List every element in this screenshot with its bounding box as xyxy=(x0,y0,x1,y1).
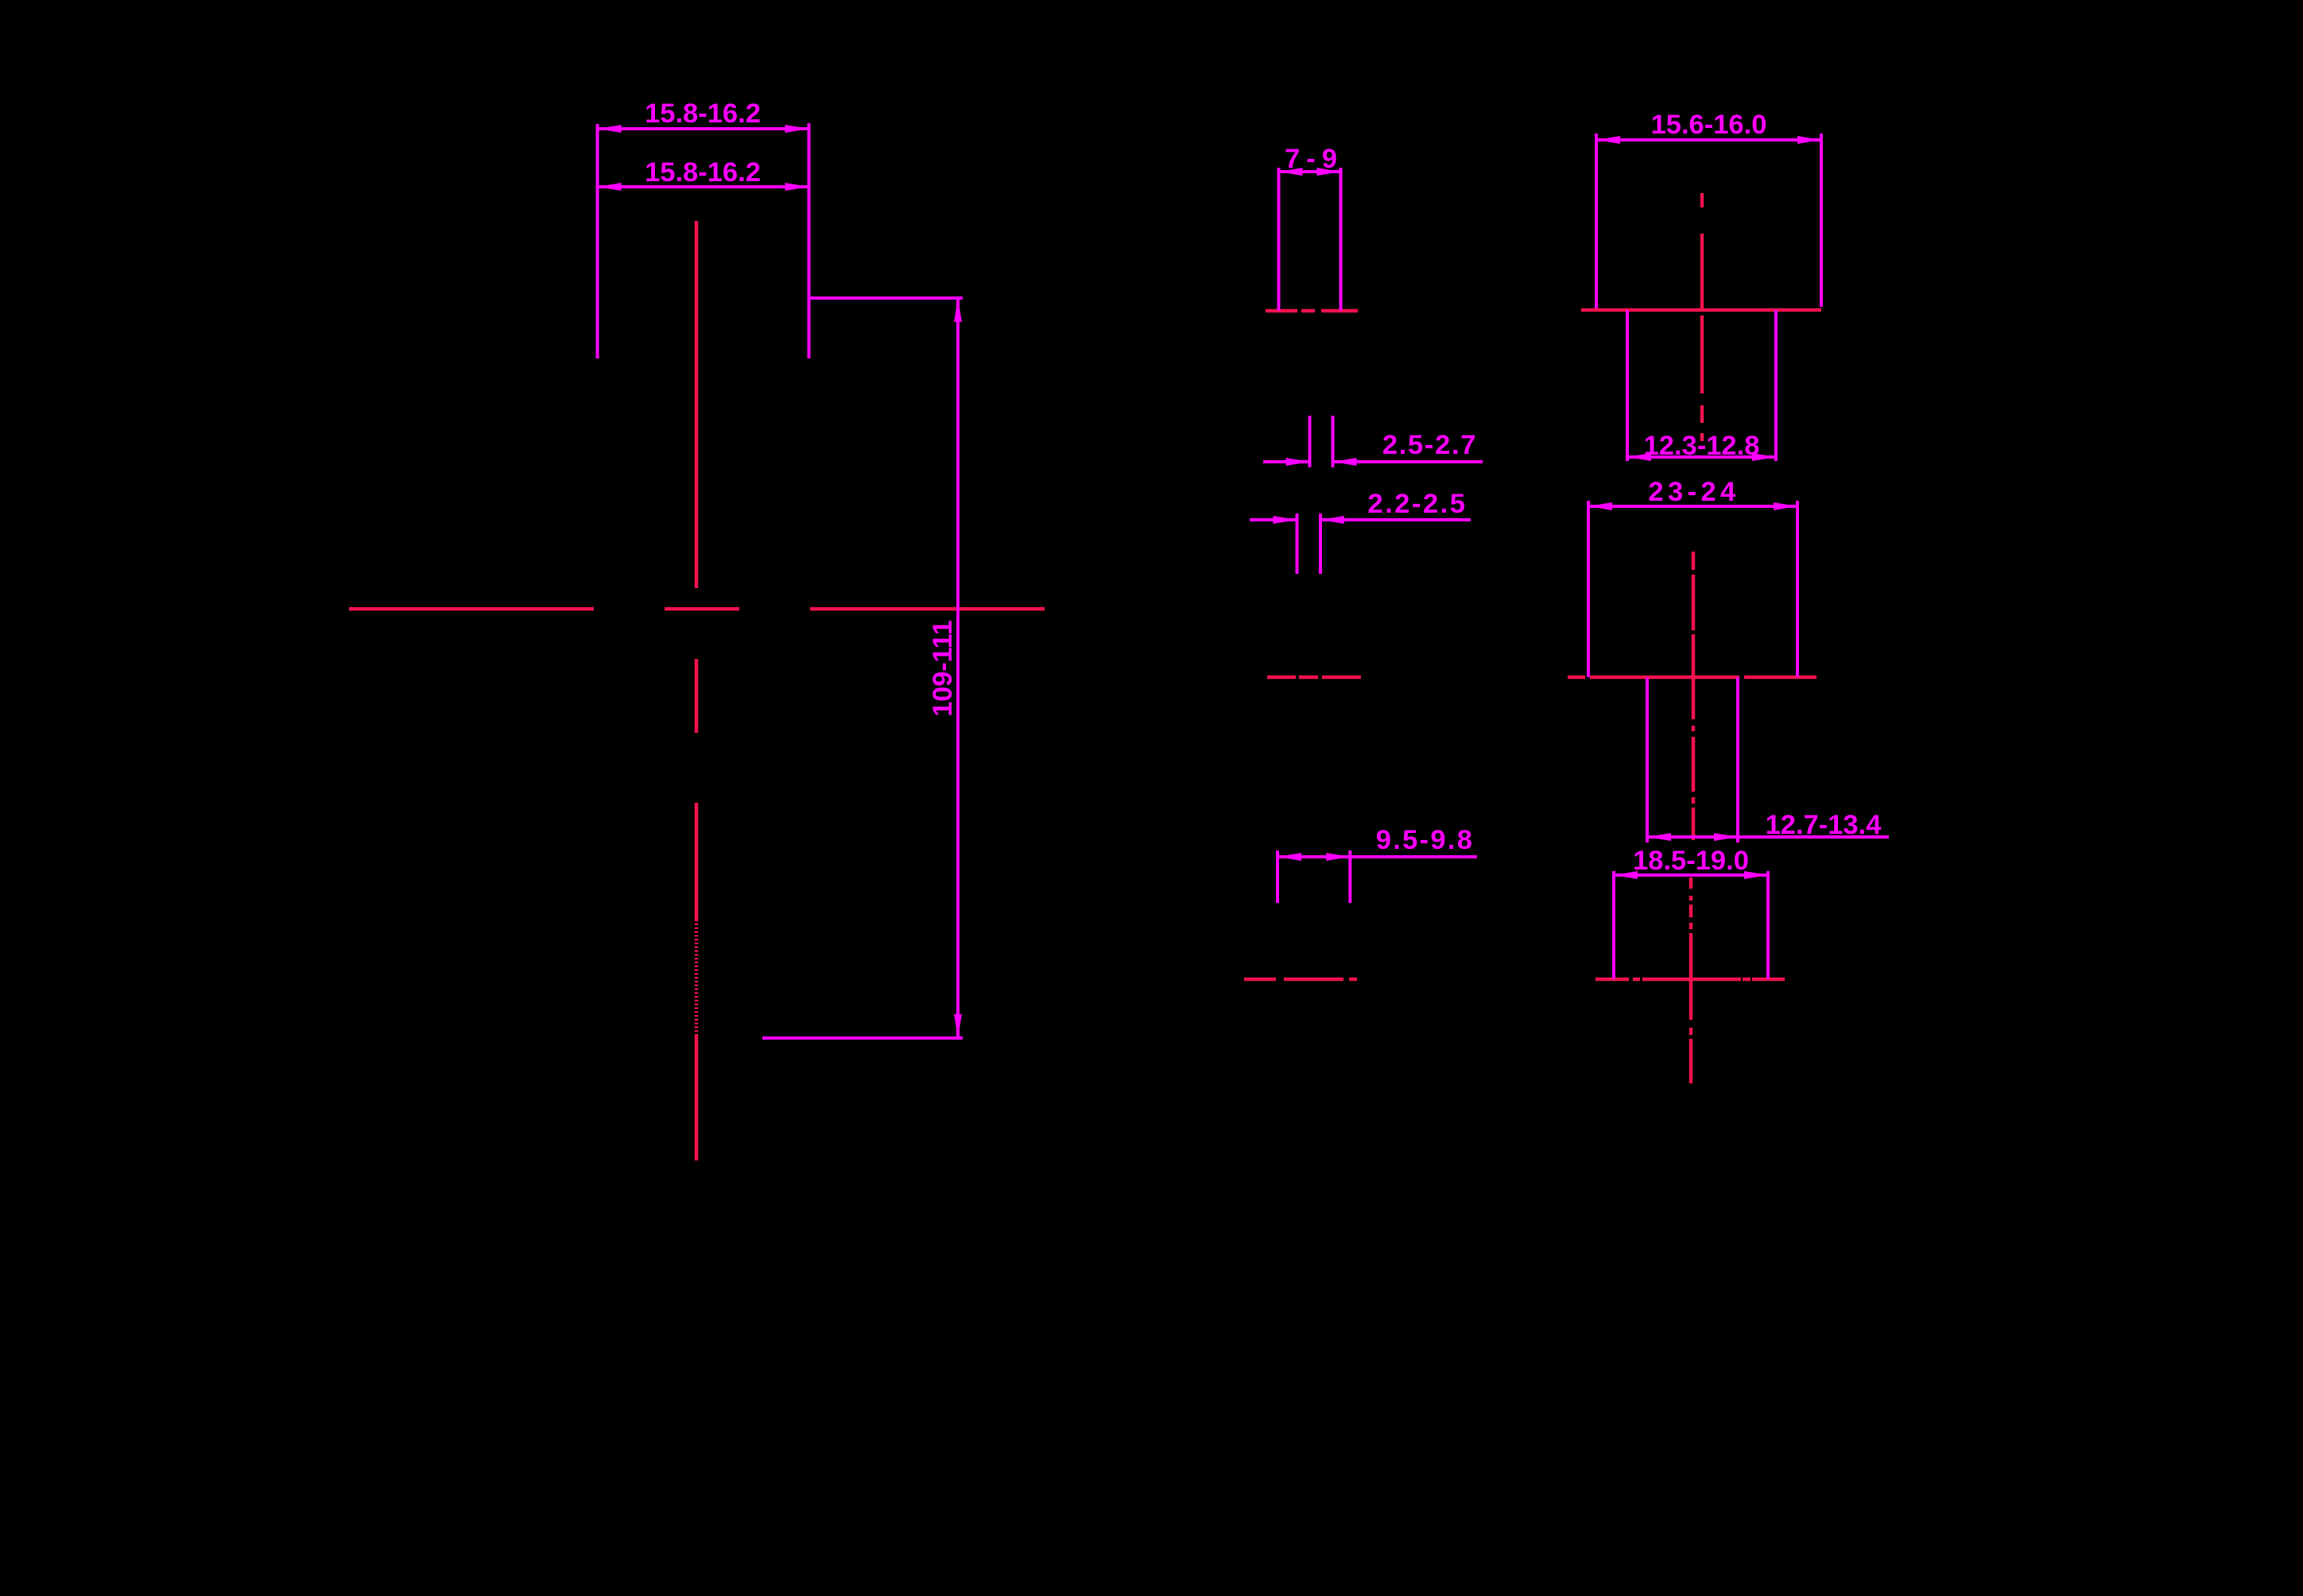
red dashed line (middle, y=852) xyxy=(1267,676,1361,680)
dimension line 12.7-13.4 xyxy=(1647,833,1889,841)
svg-text:18.5-19.0: 18.5-19.0 xyxy=(1633,846,1749,876)
red dashed line (below 7-9 view) xyxy=(1266,309,1358,313)
extension line left (9.5-9.8) xyxy=(1276,850,1279,903)
extension line left (7-9) xyxy=(1278,168,1281,311)
svg-text:12.3-12.8: 12.3-12.8 xyxy=(1644,431,1760,461)
extension line right (23-24) xyxy=(1796,501,1799,677)
dimension line 15.8-16.2 (upper) xyxy=(598,125,809,133)
extension line right (7-9) xyxy=(1340,168,1343,311)
extension line right (9.5-9.8) xyxy=(1348,850,1351,903)
dimension line 23-24 xyxy=(1588,502,1797,510)
svg-text:2.2-2.5: 2.2-2.5 xyxy=(1368,489,1467,519)
svg-text:9.5-9.8: 9.5-9.8 xyxy=(1376,825,1475,855)
svg-text:23-24: 23-24 xyxy=(1648,477,1739,507)
leader bottom (109-111) xyxy=(762,1036,963,1040)
extension line left (2.5-2.7) xyxy=(1309,416,1312,467)
leader top (109-111) xyxy=(809,296,963,300)
svg-text:2.5-2.7: 2.5-2.7 xyxy=(1382,430,1477,460)
extension line left (15.6-16.0) xyxy=(1595,134,1598,308)
extension line left (12.7-13.4) xyxy=(1646,677,1649,843)
extension line right (12.7-13.4) xyxy=(1736,677,1739,843)
svg-text:15.8-16.2: 15.8-16.2 xyxy=(645,99,761,129)
extension line left (18.5-19.0) xyxy=(1612,871,1615,979)
extension line right (12.3-12.8) xyxy=(1774,310,1778,461)
red horizontal centerline (figure 2) xyxy=(1568,676,1816,680)
extension line left (left view) xyxy=(596,124,599,358)
red vertical centerline (figure 3, dash-dot) xyxy=(1689,877,1693,1083)
red horizontal centerline (figure 3, dash-dot) xyxy=(1595,978,1785,982)
red vertical centerline (figure 1, dash-dot) xyxy=(1700,193,1704,441)
extension line right (2.5-2.7) xyxy=(1332,416,1335,467)
svg-text:15.6-16.0: 15.6-16.0 xyxy=(1651,110,1767,140)
extension line left (12.3-12.8) xyxy=(1626,310,1629,461)
svg-text:12.7-13.4: 12.7-13.4 xyxy=(1766,810,1882,840)
dimension line 2.2-2.5 (outside arrows) xyxy=(1250,516,1471,524)
extension line right (15.6-16.0) xyxy=(1820,134,1823,307)
dimension line 15.8-16.2 (lower) xyxy=(598,183,809,191)
svg-text:15.8-16.2: 15.8-16.2 xyxy=(645,157,761,188)
dimension line 7-9 xyxy=(1279,168,1341,176)
dimension line 12.3-12.8 xyxy=(1627,453,1776,461)
extension line right (18.5-19.0) xyxy=(1766,871,1770,979)
dimension line 18.5-19.0 xyxy=(1614,871,1768,879)
extension line right (left view) xyxy=(808,123,811,358)
red horizontal centerline (figure 1) xyxy=(1581,308,1821,312)
red vertical centerline (figure 2, dash-dot) xyxy=(1692,552,1696,840)
extension line left (23-24) xyxy=(1587,501,1590,677)
red horizontal centerline (left view) xyxy=(349,607,1045,611)
extension line right (2.2-2.5) xyxy=(1319,513,1322,574)
red dashed line (middle bottom, y=1232) xyxy=(1244,978,1357,982)
vertical dimension line 109-111 xyxy=(954,298,962,1038)
red vertical centerline (left view) xyxy=(695,221,699,1160)
dimension line 2.5-2.7 (outside arrows) xyxy=(1263,458,1483,466)
extension line left (2.2-2.5) xyxy=(1296,513,1299,574)
dimension line 15.6-16.0 xyxy=(1596,136,1821,144)
svg-text:109-111: 109-111 xyxy=(928,620,958,716)
dimension line 9.5-9.8 xyxy=(1278,853,1477,861)
svg-text:7-9: 7-9 xyxy=(1285,144,1343,174)
